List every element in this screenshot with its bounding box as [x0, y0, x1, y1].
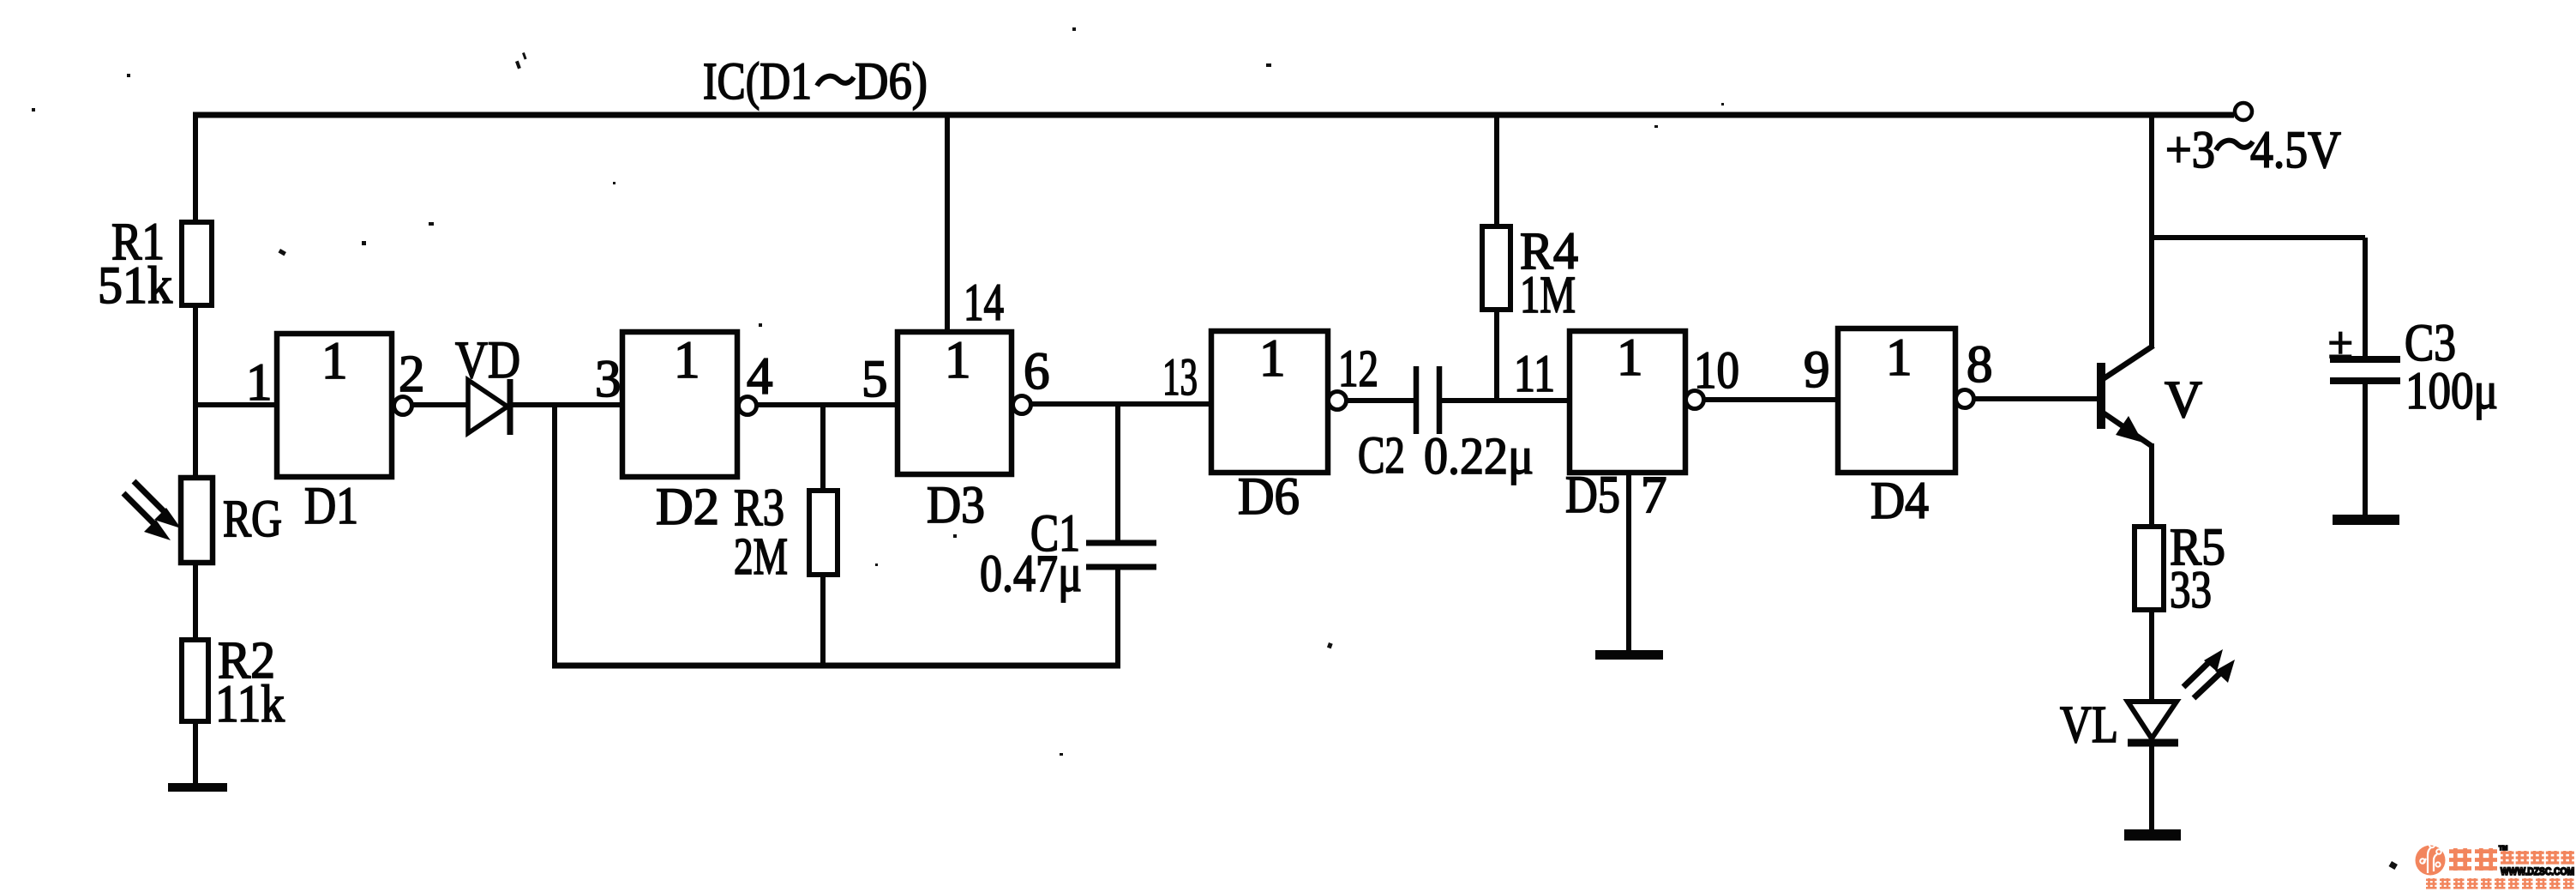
- svg-text:IC(D1: IC(D1: [703, 53, 812, 111]
- svg-text:13: 13: [1162, 349, 1198, 407]
- svg-text:V: V: [2165, 371, 2202, 429]
- inverter D5: [1570, 331, 1685, 473]
- wire: R2 to ground: [193, 721, 198, 785]
- inverter D2: [622, 332, 737, 477]
- wire: D1 pin2 to VD: [411, 402, 468, 407]
- ground (VL): [2124, 829, 2181, 841]
- watermark slogan row: [2426, 878, 2437, 889]
- svg-text:D6: D6: [1238, 468, 1300, 526]
- transistor V base bar: [2097, 363, 2105, 429]
- inverter D3: [898, 332, 1012, 474]
- wire: feedback bottom bus: [552, 663, 1120, 669]
- svg-text:1: 1: [321, 333, 348, 390]
- wire: top bus down to R4: [1494, 115, 1499, 226]
- resistor R5: [2135, 527, 2164, 610]
- watermark logo circle: [2416, 846, 2446, 876]
- pin bubble: D1 pin 2: [394, 397, 412, 415]
- wire: R1 bottom to node A: [193, 305, 198, 407]
- svg-text:D6): D6): [855, 53, 928, 111]
- svg-text:1M: 1M: [1520, 267, 1576, 324]
- wire: VL to ground: [2149, 743, 2154, 831]
- svg-text:1: 1: [1617, 329, 1643, 387]
- svg-text:±: ±: [2328, 319, 2353, 368]
- inverter D1: [277, 334, 392, 477]
- wire: VD to D2 pin3: [513, 402, 622, 407]
- svg-text:4: 4: [747, 348, 773, 406]
- wire: R3 bottom to feedback bus: [820, 575, 826, 668]
- svg-text:+3: +3: [2165, 122, 2215, 179]
- svg-text:D2: D2: [656, 479, 719, 536]
- watermark text 电子市场网: [2501, 851, 2514, 865]
- diode VD: [468, 380, 507, 433]
- wire: emitter to R5: [2149, 443, 2154, 527]
- svg-text:RG: RG: [223, 491, 282, 548]
- inverter D6: [1211, 331, 1328, 473]
- wire: bus down to R1 top: [193, 112, 198, 222]
- svg-text:51k: 51k: [98, 257, 172, 315]
- wire: D3 pin6 to D6 pin13: [1030, 401, 1211, 407]
- svg-text:8: 8: [1967, 336, 1993, 394]
- svg-text:6: 6: [1024, 343, 1050, 401]
- LED VL triangle: [2128, 702, 2177, 738]
- svg-text:1: 1: [246, 354, 273, 412]
- svg-text:7: 7: [1641, 467, 1667, 524]
- inverter D4: [1838, 328, 1955, 473]
- light arrow into RG (upper): [134, 481, 165, 512]
- pin bubble: D2 pin 4: [739, 397, 757, 415]
- wire: node to R3 top: [820, 405, 826, 491]
- photoresistor RG: [181, 478, 213, 563]
- LED VL cathode bar: [2128, 739, 2178, 747]
- wire: branch down to C3: [2363, 238, 2368, 359]
- svg-text:D4: D4: [1870, 473, 1929, 530]
- light arrow out of VL (upper): [2183, 660, 2212, 687]
- ground (R2): [168, 783, 227, 792]
- svg-text:1: 1: [1886, 329, 1912, 387]
- svg-text:WWW.DZSC.COM: WWW.DZSC.COM: [2501, 867, 2574, 877]
- svg-text:C2: C2: [1358, 427, 1405, 485]
- resistor R4: [1482, 226, 1510, 310]
- svg-text:VL: VL: [2060, 696, 2118, 754]
- wire: node A to D1 pin1: [193, 402, 277, 407]
- wire: R4 bottom to node 11: [1494, 310, 1499, 401]
- wire: D6 pin12 to C2: [1346, 398, 1416, 403]
- svg-text:D5: D5: [1565, 467, 1620, 524]
- svg-text:2M: 2M: [734, 528, 788, 586]
- wire: RG to R2: [193, 563, 198, 640]
- watermark title 维库: [2449, 848, 2471, 871]
- wire: R5 to LED VL: [2149, 610, 2154, 704]
- svg-text:12: 12: [1338, 341, 1378, 398]
- transistor V emitter arrowhead: [2116, 416, 2143, 443]
- ground (D5 pin7): [1595, 650, 1663, 660]
- svg-text:TM: TM: [2499, 846, 2507, 852]
- wire: collector up to top bus: [2149, 112, 2154, 348]
- wire: C2 to D5 pin11: [1439, 398, 1570, 403]
- capacitor C2: [1414, 366, 1420, 434]
- svg-text:10: 10: [1694, 342, 1739, 400]
- wire: C3 to ground: [2363, 381, 2368, 515]
- svg-text:1: 1: [1259, 330, 1286, 388]
- svg-text:9: 9: [1804, 341, 1830, 399]
- wire: D5 pin7 to ground: [1626, 473, 1631, 652]
- svg-text:5: 5: [862, 351, 888, 408]
- svg-text:100μ: 100μ: [2405, 363, 2498, 420]
- transistor V emitter slant: [2103, 413, 2152, 446]
- wire: feedback drop at node B: [552, 405, 557, 668]
- svg-text:3: 3: [595, 351, 621, 408]
- wire: C1 bottom to feedback bus: [1115, 567, 1120, 668]
- wire: D2 pin4 to D3 pin5: [756, 402, 898, 407]
- svg-text:D3: D3: [927, 477, 985, 534]
- wire: node A down to RG: [193, 405, 198, 478]
- svg-text:11k: 11k: [215, 676, 285, 733]
- pin bubble: D6 pin 12: [1329, 392, 1347, 410]
- light arrow into RG (lower): [123, 493, 154, 524]
- ground (C3): [2333, 515, 2399, 525]
- svg-text:0.47μ: 0.47μ: [980, 545, 1082, 603]
- light arrow out of VL (lower): [2194, 671, 2223, 698]
- wire: D4 pin8 to transistor base: [1973, 396, 2099, 401]
- wire: node to C1 top: [1115, 404, 1120, 543]
- wire: D5 pin10 to D4 pin9: [1703, 397, 1838, 402]
- transistor V collector slant: [2103, 346, 2153, 379]
- node: power terminal circle: [2235, 103, 2252, 120]
- svg-text:VD: VD: [455, 332, 520, 389]
- pin bubble: D4 pin 8: [1956, 390, 1974, 408]
- capacitor C1: [1086, 540, 1156, 546]
- wire: supply branch to C3: [2152, 235, 2365, 240]
- svg-text:33: 33: [2170, 562, 2212, 619]
- pin bubble: D3 pin 6: [1013, 396, 1031, 414]
- svg-text:14: 14: [964, 274, 1004, 332]
- svg-text:2: 2: [399, 346, 425, 403]
- wire: D3 pin14 to top bus: [945, 115, 950, 332]
- svg-text:1: 1: [945, 332, 971, 389]
- svg-text:11: 11: [1514, 346, 1555, 403]
- svg-text:1: 1: [674, 332, 700, 389]
- resistor R3: [809, 491, 838, 575]
- svg-text:0.22μ: 0.22μ: [1424, 428, 1534, 485]
- wire: +V top bus: [193, 112, 2234, 118]
- capacitor C3 plates: [2330, 356, 2400, 363]
- pin bubble: D5 pin 10: [1686, 391, 1704, 409]
- resistor R1: [182, 222, 212, 305]
- svg-text:D1: D1: [304, 478, 358, 535]
- resistor R2: [182, 640, 208, 721]
- svg-text:4.5V: 4.5V: [2250, 122, 2341, 179]
